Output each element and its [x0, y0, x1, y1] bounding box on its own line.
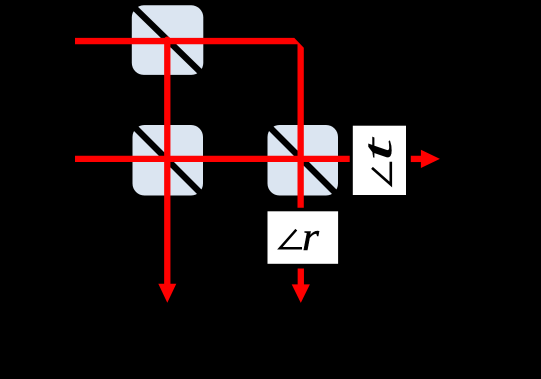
wire: top beam from left through BS1, corner turn down through BS3 to label r: [75, 38, 304, 208]
label box angle-r: [268, 211, 339, 263]
arrowhead: bottom of left vertical beam: [158, 284, 176, 303]
beam splitter BS3 (middle right): [268, 125, 339, 196]
arrowhead: below label r: [292, 284, 310, 303]
beam splitter BS1 (top): [132, 5, 204, 75]
wire: stem below label r: [298, 269, 304, 286]
wire: middle beam from left through BS2 and BS3 to label t: [75, 156, 350, 162]
beam splitter BS2 (middle left): [133, 125, 204, 196]
wire: vertical beam down from BS1 through BS2: [164, 40, 170, 285]
svg-text:t: t: [355, 137, 400, 161]
svg-text:r: r: [302, 214, 319, 259]
label box angle-t (rotated): [353, 126, 406, 195]
arrowhead: right of label t: [421, 150, 440, 168]
wire: stem right of label t: [411, 156, 421, 162]
